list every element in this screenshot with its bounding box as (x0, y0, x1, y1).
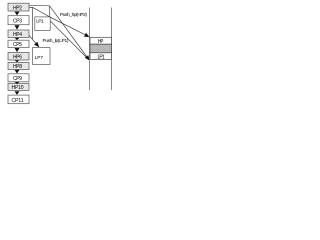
svg-text:CP11: CP11 (12, 98, 24, 104)
svg-text:CP5: CP5 (13, 42, 22, 48)
svg-text:Push_lp(LP1): Push_lp(LP1) (43, 38, 69, 44)
svg-text:Push_hp(HP2): Push_hp(HP2) (60, 12, 87, 18)
svg-text:HP4: HP4 (13, 32, 22, 38)
svg-text:LP1: LP1 (36, 19, 44, 25)
svg-text:LP1: LP1 (98, 54, 105, 60)
svg-text:HP2: HP2 (13, 5, 22, 11)
svg-text:LP7: LP7 (35, 55, 44, 61)
svg-text:HP6: HP6 (13, 54, 22, 60)
svg-text:HP10: HP10 (12, 85, 24, 91)
svg-text:HP: HP (98, 39, 104, 45)
svg-text:HP8: HP8 (13, 64, 22, 70)
svg-text:CP3: CP3 (13, 18, 22, 24)
svg-text:CP9: CP9 (13, 76, 22, 82)
